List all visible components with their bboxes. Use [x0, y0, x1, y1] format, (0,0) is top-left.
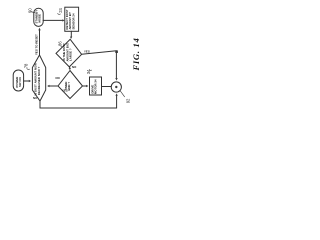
svg-text:SW ON: SW ON [18, 77, 22, 87]
node corner dot [115, 50, 118, 53]
wire up to hexagon D3 bottom [39, 101, 41, 108]
wire D2 right to R2 [83, 85, 87, 87]
text in rectangle R2 [90, 79, 97, 94]
label YES (right branch) [84, 50, 90, 54]
label 24 [58, 7, 63, 12]
diamond D2 (lower decision) [58, 71, 83, 99]
text in hexagon D3 [34, 63, 41, 96]
text in diamond D2 [64, 82, 71, 91]
svg-text:90: 90 [28, 8, 33, 13]
FIG. 14 caption [131, 37, 141, 71]
svg-text:YES TO RESET: YES TO RESET [34, 34, 38, 55]
hexagon D3 (tall left decision) [32, 55, 45, 101]
svg-text:92: 92 [125, 98, 130, 103]
svg-text:LARGE ?: LARGE ? [69, 48, 73, 61]
svg-text:24: 24 [58, 7, 63, 12]
wire D3 top to oval O1 [39, 30, 41, 55]
text in oval O1 [34, 10, 41, 24]
label 78 [23, 63, 28, 68]
oval O2 (left terminator) [13, 70, 23, 91]
wire D2 left to hexagon D3 [49, 85, 58, 87]
svg-text:34: 34 [86, 69, 91, 74]
label 92 [125, 98, 130, 103]
wire circle bottom loop [116, 96, 118, 108]
wire node corner down to circle [115, 51, 117, 78]
diamond D1 (upper decision) [56, 39, 82, 67]
label 34 [86, 69, 91, 74]
wire R1 to D1 [70, 31, 72, 37]
wire O2 to D3 [24, 80, 29, 82]
label NO (left branch of D2) [56, 76, 61, 80]
svg-text:FIG. 14: FIG. 14 [131, 37, 141, 71]
text in rectangle R1 [65, 9, 75, 29]
label 90 [28, 8, 33, 13]
label YES (right branch of D2) [62, 89, 68, 93]
svg-text:SENSOR 24: SENSOR 24 [71, 13, 75, 30]
circle N1 (connector) [111, 82, 121, 92]
svg-text:MOTOR 34: MOTOR 34 [94, 79, 98, 94]
svg-text:MODE: MODE [37, 14, 41, 23]
rectangle R2 (lower right process box) [90, 77, 102, 95]
svg-text:78: 78 [23, 63, 28, 68]
wire D1 right to node corner [82, 51, 117, 54]
text in oval O2 [15, 77, 22, 88]
wire R2 to circle [102, 86, 112, 88]
node dot inside circle [115, 86, 117, 88]
label NO (bottom branch of D3) [33, 96, 38, 100]
label 86 [57, 41, 62, 46]
svg-text:YES: YES [84, 50, 90, 54]
oval O1 (top-left terminator) [34, 8, 43, 26]
wire O1 to R1 [43, 19, 63, 21]
svg-text:YES: YES [62, 89, 68, 93]
svg-text:DECREASED NOW ?: DECREASED NOW ? [37, 66, 41, 95]
label NO (down branch) [72, 65, 77, 69]
wire D1 to D2 [68, 67, 71, 68]
label YES (up branch of D3) [34, 34, 38, 55]
wire bottom horizontal [40, 107, 117, 109]
text in diamond D1 [62, 43, 72, 62]
rectangle R1 (top process box) [65, 7, 79, 31]
